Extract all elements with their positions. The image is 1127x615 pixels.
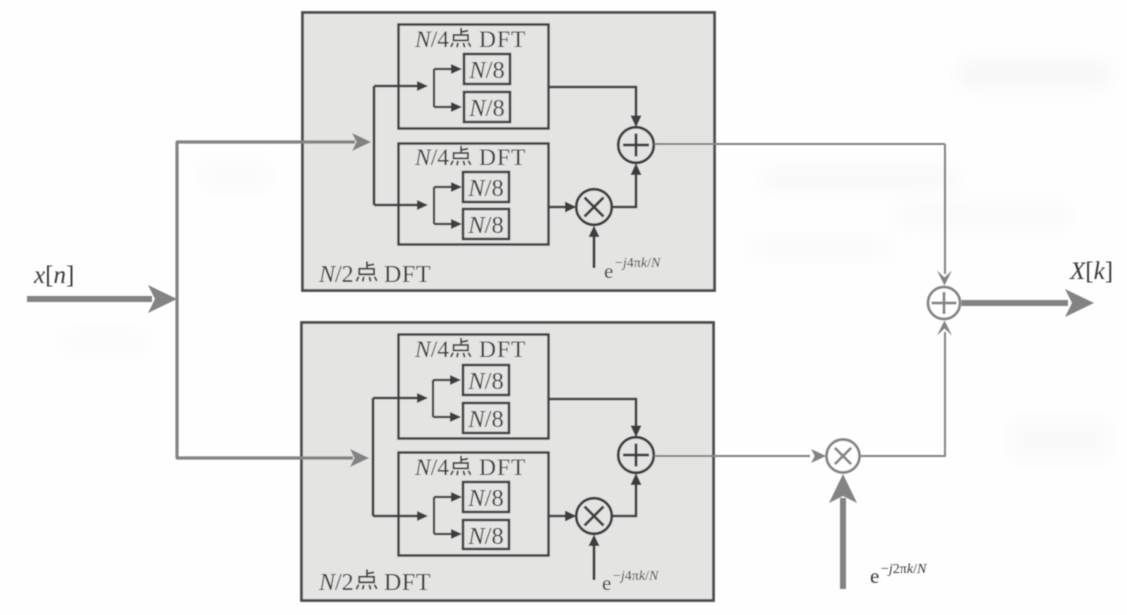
wire: M1 to adder A1: [612, 163, 642, 207]
svg-text:−j4πk/N: −j4πk/N: [613, 569, 659, 584]
wire: splitter bottom arm to bottom box: [176, 449, 369, 467]
svg-text:e: e: [604, 259, 613, 283]
wire: top-box splitter bracket: [374, 81, 428, 210]
faint scan bleed-through smudges: [60, 60, 1110, 460]
svg-text:N/4: N/4: [414, 337, 449, 363]
label N/4点 DFT (inner box 4): [414, 455, 526, 481]
block: top N/2-point DFT box: [303, 13, 715, 291]
svg-text:N/8: N/8: [467, 406, 503, 433]
label N/2点 DFT (top box): [318, 261, 431, 288]
wire: bracket inside inner box 2: [434, 182, 462, 229]
svg-text:DFT: DFT: [479, 27, 526, 53]
svg-text:N/8: N/8: [467, 212, 503, 239]
block: inner N/4-point DFT box 3 (bottom): [399, 335, 549, 439]
block: inner N/4-point DFT box 2 (top): [399, 144, 549, 245]
svg-text:N/8: N/8: [468, 57, 504, 84]
multiplier M3: [827, 440, 860, 473]
block: N/8 box C: [463, 365, 509, 395]
block: N/8 box B2: [463, 209, 509, 239]
svg-text:N/4: N/4: [414, 455, 449, 481]
svg-text:N/8: N/8: [468, 95, 504, 122]
multiplier M1: [576, 189, 612, 225]
svg-text:e: e: [870, 564, 879, 588]
label e^-j4pik/N (top box): [604, 256, 661, 283]
wire: M3 output up to final adder: [860, 321, 953, 457]
block: inner N/4-point DFT box 4 (bottom): [399, 453, 549, 556]
svg-text:N/4: N/4: [414, 145, 449, 171]
multiplier M2: [576, 498, 612, 534]
block: N/8 box A: [464, 54, 510, 84]
svg-text:N/8: N/8: [467, 175, 503, 202]
block: N/8 box A2: [463, 172, 509, 202]
svg-text:DFT: DFT: [479, 145, 526, 171]
wire: inner box1 output to adder A1: [549, 87, 642, 128]
wire: twiddle arrow into M2: [589, 535, 600, 581]
wire: top path down into final adder: [937, 144, 952, 286]
svg-text:DFT: DFT: [479, 455, 526, 481]
block: N/8 box D2: [463, 520, 509, 549]
svg-text:N/4: N/4: [414, 27, 449, 53]
adder A1: [618, 127, 654, 163]
svg-text:N/8: N/8: [467, 368, 503, 395]
label N/4点 DFT (inner box 2): [414, 145, 526, 171]
wire: splitter top arm to top box: [176, 133, 371, 151]
svg-text:N/8: N/8: [467, 485, 503, 512]
wire: thick twiddle arrow into M3: [829, 474, 857, 589]
adder A2: [618, 437, 654, 473]
wire: x[n] thick input arrow: [27, 285, 177, 313]
wire: bottom-box splitter bracket: [373, 393, 428, 521]
svg-text:DFT: DFT: [479, 337, 526, 363]
wire: adder A1 output to final adder (horizontal): [654, 143, 945, 145]
label N/4点 DFT (inner box 1): [414, 27, 526, 53]
wire: inner box3 output to adder A2: [549, 399, 642, 438]
wire: thick output arrow X[k]: [962, 289, 1095, 317]
adder A3 (final): [928, 287, 960, 319]
svg-text:−j2πk/N: −j2πk/N: [881, 562, 927, 577]
wire: bracket inside inner box 3: [433, 375, 461, 422]
svg-text:DFT: DFT: [384, 570, 431, 596]
wire: bracket inside inner box 1: [434, 64, 462, 112]
wire: inner box2 output to multiplier M1: [549, 202, 577, 213]
label N/2点 DFT (bottom box): [318, 569, 431, 596]
svg-text:N/8: N/8: [467, 523, 503, 550]
block: bottom N/2-point DFT box: [302, 323, 714, 601]
block: N/8 box B: [464, 92, 510, 122]
svg-text:N/2: N/2: [318, 262, 354, 288]
svg-text:x[n]: x[n]: [33, 262, 74, 289]
wire: M2 to adder A2: [612, 473, 642, 516]
svg-text:−j4πk/N: −j4πk/N: [615, 256, 661, 271]
wire: input splitter vertical: [175, 142, 178, 458]
block: inner N/4-point DFT box 1 (top): [399, 25, 549, 129]
wire: bracket inside inner box 4: [434, 492, 462, 539]
svg-text:e: e: [602, 571, 611, 595]
svg-text:N/2: N/2: [318, 570, 354, 596]
svg-text:DFT: DFT: [384, 262, 431, 288]
block: N/8 box C2: [463, 482, 509, 512]
label e^-j4pik/N (bottom box): [602, 569, 659, 595]
label e^-j2pik/N (right): [870, 562, 927, 588]
wire: adder A2 output to multiplier M3: [654, 449, 826, 463]
wire: twiddle arrow into M1: [589, 226, 600, 269]
block: N/8 box D: [463, 403, 509, 433]
svg-text:X[k]: X[k]: [1069, 258, 1113, 285]
label N/4点 DFT (inner box 3): [414, 337, 526, 363]
wire: inner box4 output to multiplier M2: [549, 511, 577, 522]
